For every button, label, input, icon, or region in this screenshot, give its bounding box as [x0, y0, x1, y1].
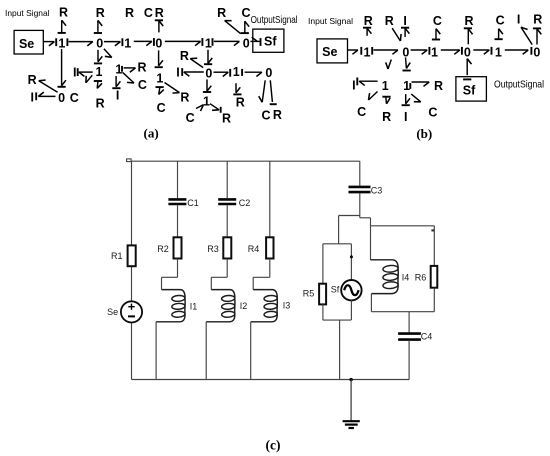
svg-text:R1: R1	[111, 251, 123, 261]
element R upper-left of J6 (a)	[217, 6, 241, 34]
bond J6 to Sf (a)	[250, 37, 260, 46]
bond 1L to R (b)	[382, 97, 390, 104]
bond 1S to C (a)	[196, 105, 204, 111]
bond 0L to I (a)	[36, 92, 55, 100]
bond J5 to J6 (b)	[505, 47, 532, 55]
source Se circle (c)	[121, 301, 142, 322]
svg-text:1: 1	[58, 37, 65, 51]
element C lower-right of 1R (a)	[138, 78, 147, 92]
junction 0 0R (a)	[205, 66, 212, 80]
bond 0R to R upper-left (a)	[190, 58, 203, 67]
bond graph (a) label Input Signal	[5, 9, 50, 18]
svg-text:1: 1	[495, 45, 502, 59]
svg-text:1: 1	[364, 45, 371, 59]
junction 1 1R (a)	[115, 62, 122, 76]
label C1	[187, 198, 199, 208]
wire I2 to bottom rail (c)	[205, 322, 207, 380]
svg-text:R: R	[364, 14, 373, 28]
svg-text:0: 0	[96, 37, 103, 51]
bond Se to J1 (a)	[44, 38, 57, 46]
svg-text:Sf: Sf	[331, 284, 340, 294]
junction 0 0L (a)	[58, 91, 65, 105]
junction 1 1R (b)	[403, 79, 410, 93]
bond J5 down to 0R (a)	[204, 50, 212, 64]
bond J2 diagonal to 1R (a)	[104, 49, 112, 58]
svg-text:I: I	[30, 91, 33, 105]
label OutputSignal (a)	[251, 15, 298, 26]
svg-text:I: I	[116, 89, 119, 103]
resistor R1	[128, 245, 136, 266]
svg-text:0: 0	[58, 91, 65, 105]
wire C3 down to node (c)	[359, 193, 361, 215]
svg-text:R: R	[155, 6, 164, 20]
svg-text:R6: R6	[415, 273, 427, 283]
bond 1R to I (a)	[112, 76, 120, 88]
source Sf circle (c)	[341, 280, 361, 300]
junction 1 1L (b)	[382, 79, 389, 93]
svg-text:I3: I3	[283, 301, 291, 311]
bond 1S to R (a)	[210, 104, 221, 113]
svg-text:C3: C3	[371, 185, 383, 195]
bond 1T to R below (a)	[233, 83, 241, 94]
wire bottom rail (c)	[132, 379, 410, 381]
svg-text:C: C	[157, 101, 166, 115]
bond 0L to R (a)	[39, 80, 58, 92]
bond 1M to C (a)	[156, 87, 164, 94]
junction 1 J3 (a)	[124, 37, 131, 51]
svg-text:1: 1	[124, 37, 131, 51]
resistor R5	[319, 284, 326, 305]
svg-text:Se: Se	[19, 37, 34, 51]
junction 1 1T (a)	[233, 65, 242, 79]
junction 1 J5 (b)	[495, 45, 502, 59]
wire C4 to bottom rail (c)	[408, 340, 410, 379]
svg-text:OutputSignal: OutputSignal	[251, 15, 298, 26]
wire R2 to I1 (c)	[162, 259, 178, 290]
capacitor C1	[168, 199, 186, 204]
bond 0S to R (a)	[270, 80, 277, 104]
bond J2 diagonal to 1L (b)	[386, 60, 392, 70]
source Se box (a)	[14, 30, 43, 54]
bond J1 down to 0L (a)	[58, 49, 66, 87]
svg-text:C: C	[241, 6, 250, 20]
element I left of 0L (a)	[30, 91, 33, 105]
bond J3 to J4 (b)	[441, 47, 462, 55]
inductor I2	[206, 290, 235, 322]
wire branch3 top (c)	[269, 161, 271, 237]
wire branch1 top (c)	[177, 161, 179, 198]
element C below-right of 1R (b)	[428, 105, 437, 119]
element I left of 0R (a)	[176, 66, 179, 80]
junction 1 J1 (a)	[58, 37, 67, 51]
svg-text:R: R	[464, 14, 473, 28]
bond 1R to R (b)	[412, 82, 430, 86]
element C lower-left of 1S (a)	[186, 111, 195, 125]
bond J1 to J2 (a)	[69, 42, 93, 46]
bond 1R to R (a)	[124, 68, 136, 72]
caption (b)	[416, 126, 432, 141]
bond J4 down to Sf (b)	[463, 59, 471, 80]
element R right of 1R (b)	[434, 79, 443, 93]
wire Sf bottom (c)	[340, 300, 352, 379]
wire R6 bottom (c)	[433, 288, 435, 312]
svg-text:R: R	[180, 91, 189, 105]
bond J1 to J2 (b)	[374, 50, 398, 54]
junction dot above Sf (c)	[350, 255, 353, 258]
ground symbol (c)	[343, 380, 360, 429]
wire I3 to bottom rail (c)	[250, 322, 252, 380]
label I4	[402, 273, 410, 283]
element I above-left of J6 (b)	[517, 13, 532, 45]
element R below-right of 0S (a)	[273, 108, 282, 122]
junction dot ground (c)	[349, 378, 352, 381]
capacitor C4	[398, 334, 421, 340]
svg-text:(c): (c)	[266, 438, 281, 453]
element R right of 1R (a)	[137, 61, 146, 75]
svg-text:R: R	[217, 6, 226, 20]
wire node step to right (c)	[360, 216, 371, 226]
element I left of 1L (a)	[73, 65, 76, 79]
bond 1M to R (a)	[165, 83, 180, 94]
svg-text:R: R	[96, 96, 105, 110]
resistor R2	[174, 237, 182, 258]
svg-text:I2: I2	[240, 301, 248, 311]
svg-text:1: 1	[382, 79, 389, 93]
bond 0R down to 1S (a)	[203, 79, 211, 92]
bond J4 down to 1M (a)	[155, 50, 163, 67]
wire C1 to R2 (c)	[177, 205, 179, 237]
bond 1L to I (a)	[78, 68, 93, 76]
svg-text:R5: R5	[303, 288, 315, 298]
svg-text:R: R	[180, 49, 189, 63]
junction 0 J4 (a)	[155, 37, 162, 51]
element C above J6 (a)	[241, 6, 251, 33]
svg-text:1: 1	[203, 94, 210, 108]
element R upper-left of 0L (a)	[28, 73, 37, 87]
label R4	[248, 244, 260, 254]
svg-text:I: I	[517, 13, 520, 27]
element I below 1R (b)	[404, 110, 407, 124]
element C label top (a)	[144, 6, 153, 20]
svg-text:C2: C2	[239, 198, 251, 208]
svg-text:R: R	[222, 111, 231, 125]
resistor R6	[431, 266, 438, 288]
junction 1 1M (a)	[156, 72, 163, 86]
wire R4 to I3 (c)	[253, 259, 270, 290]
caption (c)	[266, 438, 281, 453]
label C4	[421, 332, 433, 342]
svg-text:1: 1	[233, 65, 240, 79]
svg-text:I: I	[404, 110, 407, 124]
capacitor C2	[218, 199, 236, 204]
svg-text:R: R	[382, 110, 391, 124]
bond J2 to J3 (b)	[411, 47, 430, 55]
svg-text:(a): (a)	[144, 126, 159, 141]
wire to I4 (c)	[370, 226, 372, 260]
svg-text:1: 1	[205, 37, 212, 51]
svg-text:0: 0	[243, 37, 250, 51]
svg-text:I1: I1	[190, 302, 198, 312]
capacitor C3	[349, 187, 371, 192]
bond 1R to C (b)	[411, 94, 421, 102]
junction 0 J6 (b)	[533, 45, 540, 59]
bond Se to J1 (b)	[348, 47, 362, 55]
element R upper-left of 0R (a)	[180, 49, 189, 63]
bond 1R to I (b)	[402, 94, 410, 105]
element C below-left of 0S (a)	[261, 109, 270, 123]
svg-text:0: 0	[155, 37, 162, 51]
svg-text:I4: I4	[402, 273, 410, 283]
wire top rail (c)	[132, 160, 360, 162]
element R above-left of J2 (b)	[385, 14, 401, 41]
wire to R6 top (c)	[371, 226, 435, 266]
svg-text:(b): (b)	[416, 126, 432, 141]
element R above J6 (b)	[533, 12, 542, 44]
svg-text:Se: Se	[107, 307, 118, 317]
svg-text:Input Signal: Input Signal	[308, 17, 353, 26]
svg-text:R2: R2	[157, 244, 169, 254]
junction 1 1S (a)	[203, 94, 210, 108]
wire I1 to bottom rail (c)	[155, 322, 157, 380]
element I above J2 (b)	[401, 14, 409, 37]
svg-text:0: 0	[265, 66, 272, 80]
bond 1L to I (b)	[357, 78, 377, 86]
junction 1 J5 (a)	[205, 37, 213, 51]
element R below 1L (a)	[96, 96, 105, 110]
svg-text:1: 1	[403, 79, 410, 93]
bond J2 down to 1L (a)	[94, 50, 102, 64]
label C3	[371, 185, 383, 195]
bond J3 to J4 (a)	[134, 38, 154, 46]
label R3	[207, 244, 219, 254]
bond 0S to C (a)	[259, 80, 266, 102]
wire branch2 top (c)	[226, 161, 228, 198]
junction 0 0S (a)	[265, 66, 272, 80]
svg-text:R: R	[125, 6, 134, 20]
bond J5 to J6 (a)	[214, 41, 240, 45]
bond 1L to C (b)	[369, 92, 378, 101]
element R below 1L (b)	[382, 110, 391, 124]
label R5	[303, 288, 315, 298]
wire left branch vertical (c)	[131, 161, 133, 379]
bond 1T to 0S (a)	[245, 72, 262, 76]
svg-text:R: R	[533, 12, 542, 26]
label Sf (c)	[331, 284, 340, 294]
bond 0R to I (a)	[182, 68, 204, 76]
bond J4 to J5 (a)	[165, 38, 203, 46]
label I1	[190, 302, 198, 312]
svg-text:R: R	[59, 5, 68, 19]
junction 0 J2 (b)	[402, 46, 409, 60]
svg-text:Input Signal: Input Signal	[5, 9, 50, 18]
junction 1 1L (a)	[96, 65, 103, 79]
inductor I3	[251, 290, 278, 322]
svg-text:R: R	[236, 96, 245, 110]
svg-text:0: 0	[464, 45, 471, 59]
svg-text:1: 1	[156, 72, 163, 86]
R6 nub (c)	[431, 229, 434, 231]
label R1	[111, 251, 123, 261]
element C below-left of 1L (b)	[357, 105, 366, 119]
wire Sf top (c)	[350, 244, 352, 280]
element R above J2 (a)	[94, 6, 105, 33]
svg-text:Sf: Sf	[463, 84, 476, 98]
svg-text:1: 1	[431, 45, 438, 59]
element R lower-right of 1S (a)	[222, 111, 231, 125]
svg-text:C: C	[186, 111, 195, 125]
svg-text:C: C	[433, 14, 442, 28]
wire R5 Sf top arm (c)	[323, 244, 352, 284]
bond J2 to J3 (a)	[104, 38, 123, 46]
corner terminal nub (c)	[127, 159, 132, 162]
junction 0 J6 (a)	[243, 37, 250, 51]
svg-text:0: 0	[533, 45, 540, 59]
svg-text:I: I	[176, 66, 179, 80]
element I below 1R (a)	[116, 89, 119, 103]
sink Sf box (b)	[456, 77, 487, 101]
svg-text:C1: C1	[187, 198, 199, 208]
element I left of 1L (b)	[352, 79, 355, 93]
label Se (c)	[107, 307, 118, 317]
svg-text:0: 0	[205, 66, 212, 80]
svg-text:C: C	[138, 78, 147, 92]
resistor R4	[266, 237, 273, 258]
svg-text:R: R	[96, 6, 105, 20]
caption (a)	[144, 126, 159, 141]
svg-text:C: C	[357, 105, 366, 119]
wire top rail to C3 (c)	[359, 161, 361, 186]
svg-text:Se: Se	[322, 45, 337, 59]
svg-text:R: R	[137, 61, 146, 75]
element C above J5 (b)	[495, 14, 505, 40]
inductor I1	[156, 290, 185, 322]
svg-text:R: R	[385, 14, 394, 28]
label I2	[240, 301, 248, 311]
resistor R3	[223, 237, 231, 258]
svg-text:C: C	[428, 105, 437, 119]
junction 0 J4 (b)	[464, 45, 471, 59]
element R above J1 (b)	[363, 14, 373, 36]
element C right of 0L (a)	[70, 91, 79, 105]
element R above J4 (b)	[464, 14, 474, 45]
sink Sf box (a)	[253, 29, 284, 52]
svg-text:R: R	[273, 108, 282, 122]
bond 1R to C (a)	[123, 72, 135, 83]
wire node to left arm (c)	[339, 216, 360, 244]
svg-text:OutputSignal: OutputSignal	[494, 79, 544, 90]
svg-text:C4: C4	[421, 332, 433, 342]
label R2	[157, 244, 169, 254]
junction 0 J2 (a)	[96, 37, 103, 51]
label R6	[415, 273, 427, 283]
junction 1 J3 (b)	[431, 45, 438, 59]
bond 0R to 1T (a)	[214, 69, 231, 77]
svg-text:R3: R3	[207, 244, 219, 254]
bond J2 down to 1R (b)	[403, 57, 411, 70]
junction 1 J1 (b)	[364, 45, 373, 59]
inductor I4	[371, 260, 399, 294]
svg-text:I: I	[73, 65, 76, 79]
svg-text:C: C	[70, 91, 79, 105]
bond J4 to J5 (b)	[473, 47, 491, 55]
wire R5 bottom (c)	[323, 304, 351, 320]
svg-text:I: I	[403, 14, 406, 28]
wire R3 to I2 (c)	[211, 259, 227, 290]
label C2	[239, 198, 251, 208]
element R above J3 (a)	[125, 6, 134, 20]
element R lower-right of 1M (a)	[180, 91, 189, 105]
svg-text:Sf: Sf	[264, 35, 277, 49]
wire I4 bottom (c)	[371, 294, 434, 312]
svg-text:I: I	[352, 79, 355, 93]
svg-text:C: C	[496, 14, 505, 28]
element R above J4 (a)	[155, 6, 164, 32]
svg-text:R: R	[28, 73, 37, 87]
wire to C4 (c)	[408, 312, 410, 333]
wire C2 to R3 (c)	[226, 205, 228, 237]
label OutputSignal (b)	[494, 79, 544, 90]
svg-text:R4: R4	[248, 244, 260, 254]
element C below 1M (a)	[157, 101, 166, 115]
element C above J3 (b)	[432, 14, 442, 40]
bond 1L to C (a)	[86, 75, 92, 83]
label I3	[283, 301, 291, 311]
svg-text:C: C	[144, 6, 153, 20]
svg-text:C: C	[261, 109, 270, 123]
svg-text:1: 1	[96, 65, 103, 79]
svg-text:R: R	[434, 79, 443, 93]
bond 1L to R (a)	[94, 81, 102, 88]
bond graph (b) label Input Signal	[308, 17, 353, 26]
source Se box (b)	[317, 39, 348, 63]
element R above J1 (a)	[58, 5, 68, 33]
element R below 1T (a)	[236, 96, 245, 110]
